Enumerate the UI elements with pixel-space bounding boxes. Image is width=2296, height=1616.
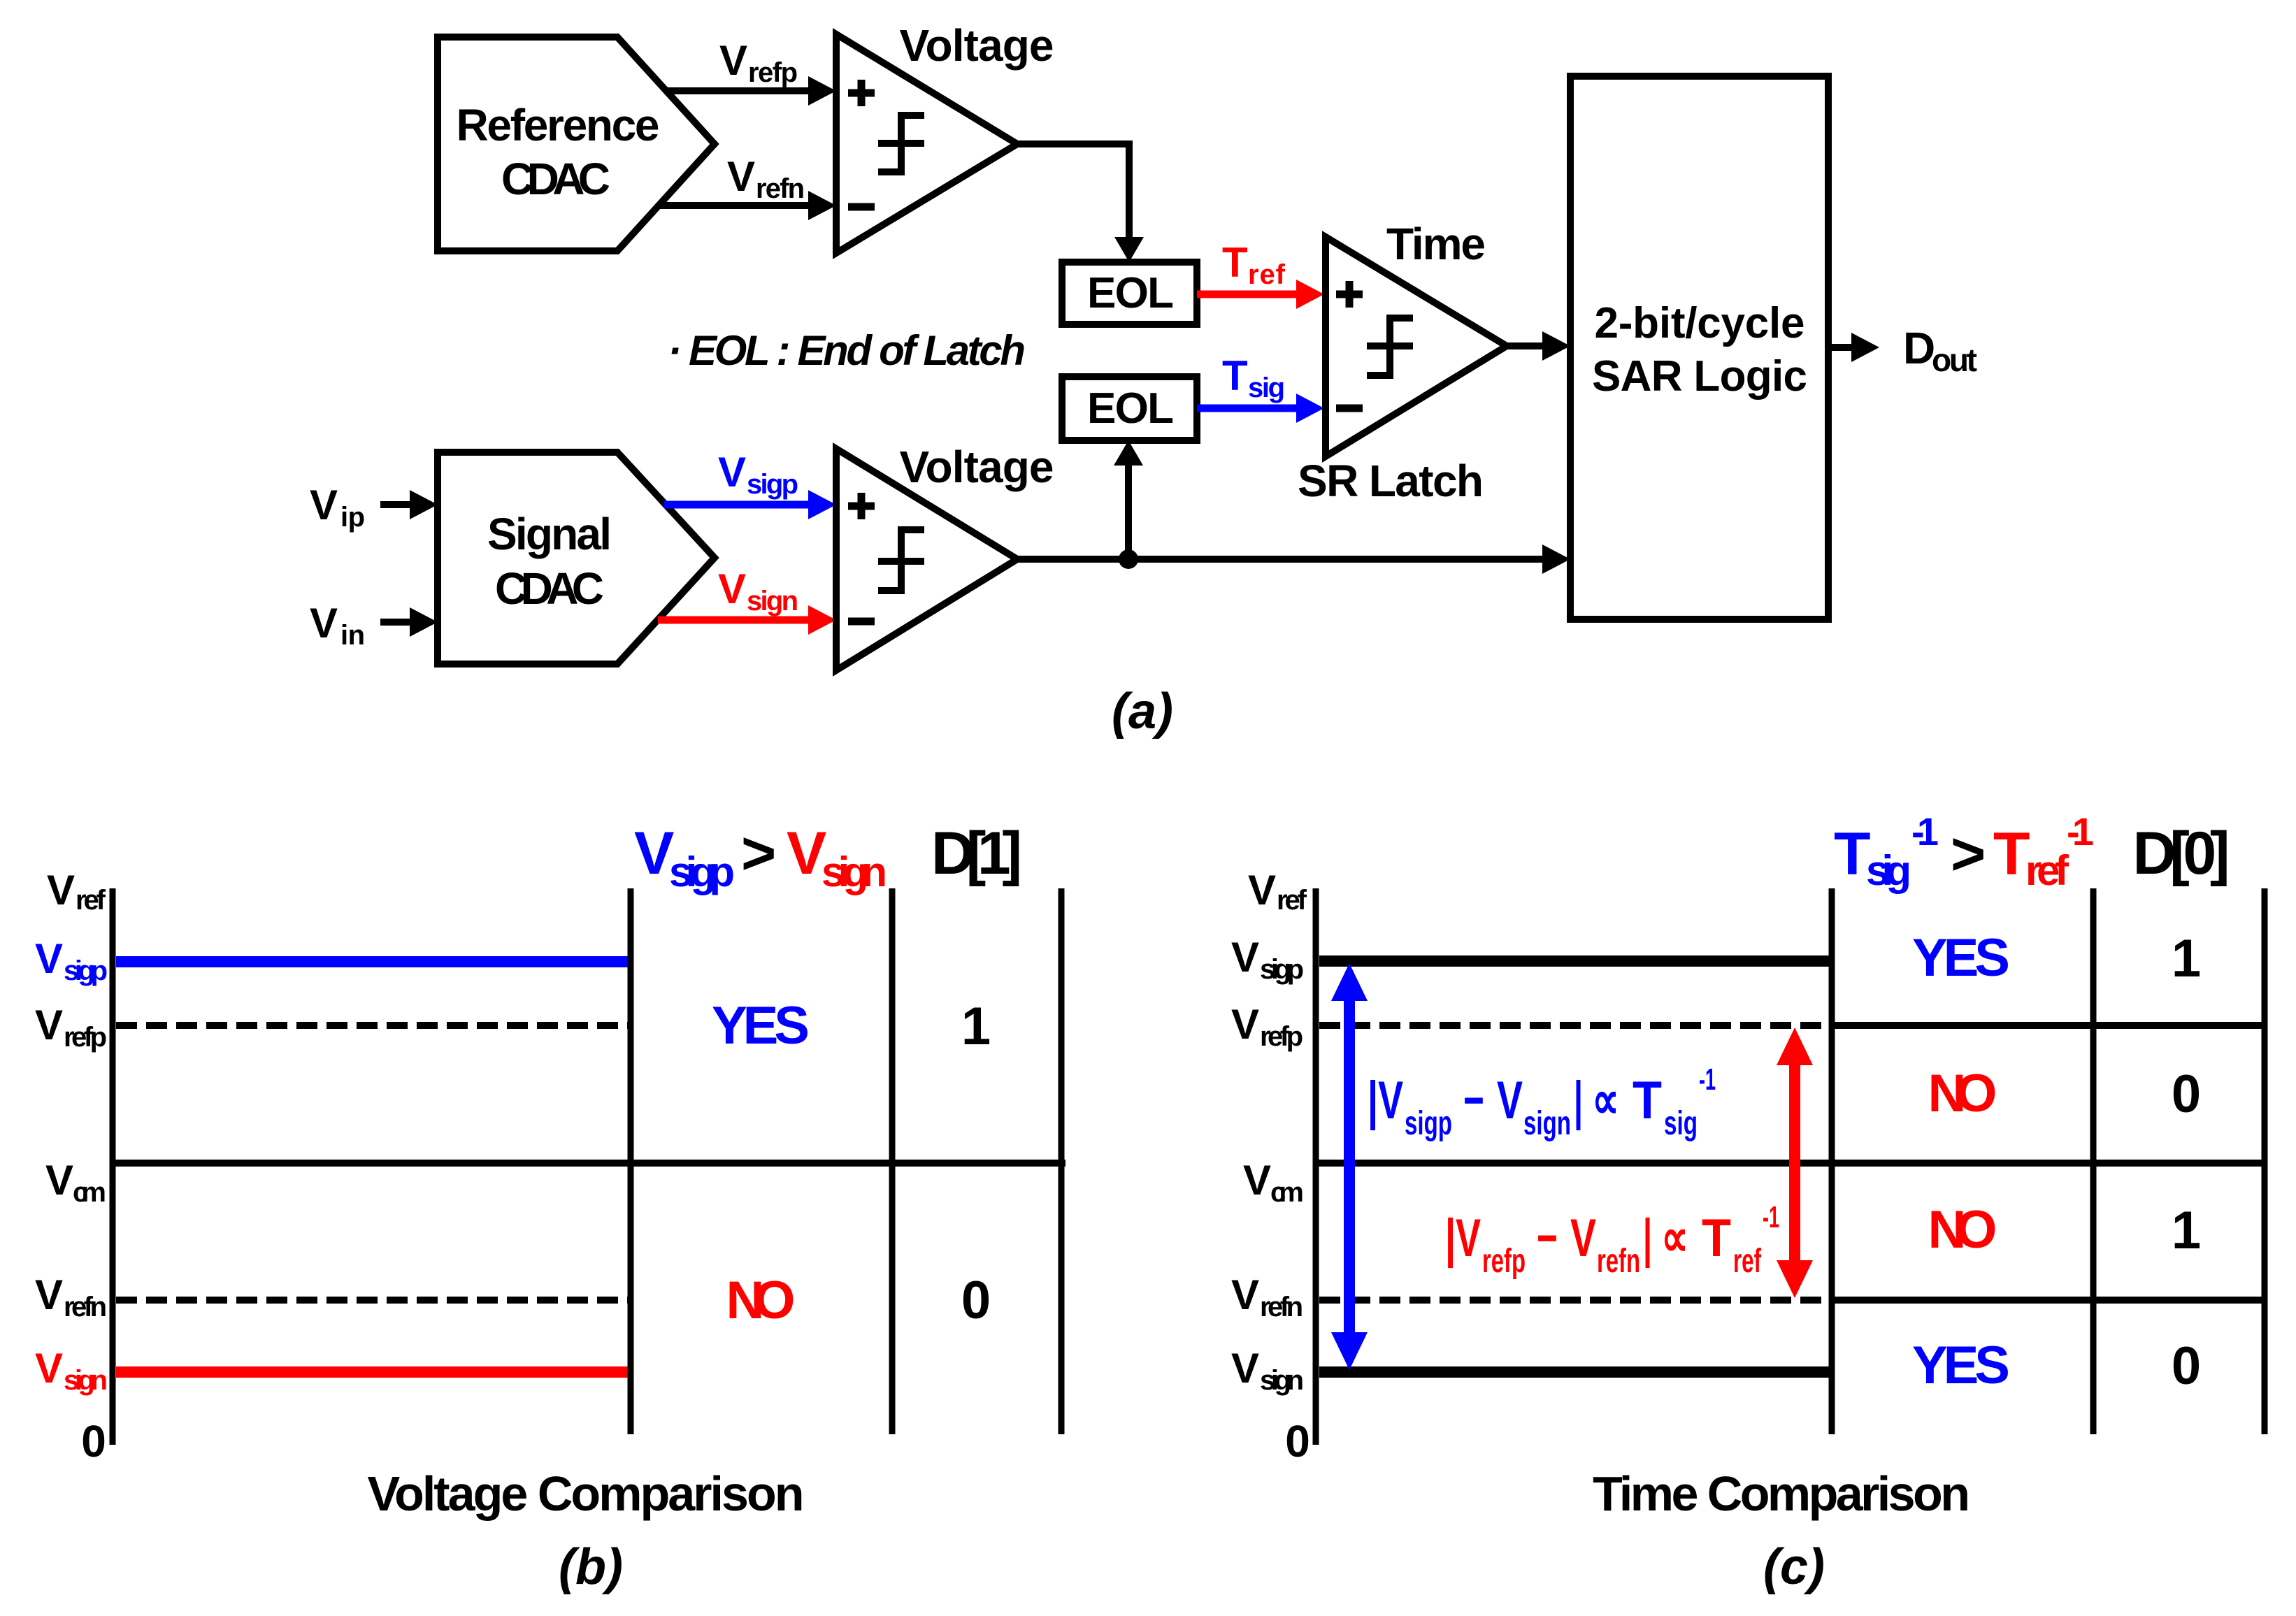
svg-text:V: V <box>310 600 338 647</box>
svg-text:T: T <box>1222 352 1248 399</box>
svg-text:ref: ref <box>1733 1243 1762 1280</box>
svg-text:sigp: sigp <box>1405 1105 1452 1142</box>
wire junction up into EOL2 <box>1114 440 1143 559</box>
svg-text:0: 0 <box>81 1416 106 1466</box>
wire Vrefn with arrow into comparator - <box>657 191 836 220</box>
svg-text:0: 0 <box>2172 1336 2201 1396</box>
svg-text:V: V <box>35 935 63 982</box>
svg-text:sigp: sigp <box>1260 954 1304 985</box>
svg-text:V: V <box>1248 867 1276 914</box>
label Tref <box>1222 239 1286 290</box>
svg-text:(a): (a) <box>1112 684 1173 740</box>
table divider 3 (b) <box>1059 888 1065 1434</box>
junction node dot <box>1119 549 1138 569</box>
row line at Vrefp level in table (c) <box>1832 1022 2267 1029</box>
svg-text:D[1]: D[1] <box>931 820 1022 887</box>
svg-text:ref: ref <box>1248 259 1286 290</box>
svg-text:−: − <box>1463 1071 1484 1130</box>
svg-text:YES: YES <box>1912 928 2010 988</box>
svg-text:· EOL : End of Latch: · EOL : End of Latch <box>668 327 1026 374</box>
svg-text:Time Comparison: Time Comparison <box>1593 1466 1970 1521</box>
svg-text:V: V <box>47 867 75 914</box>
svg-text:out: out <box>1932 342 1977 378</box>
svg-text:refn: refn <box>1597 1243 1640 1280</box>
svg-text:refn: refn <box>1260 1292 1303 1322</box>
svg-text:sigp: sigp <box>64 955 108 986</box>
table divider 3 (c) <box>2262 888 2268 1434</box>
svg-text:ref: ref <box>2025 847 2069 894</box>
table divider 1 (b) <box>628 888 634 1434</box>
wire Time comparator output into SAR logic <box>1503 331 1570 361</box>
svg-text:T: T <box>1834 821 1871 888</box>
svg-text:V: V <box>718 565 746 612</box>
label Vrefp <box>719 37 798 88</box>
Vcm line (b) <box>113 1160 1066 1167</box>
svg-text:ip: ip <box>340 502 365 533</box>
svg-text:V: V <box>727 153 755 200</box>
svg-text:-1: -1 <box>1911 809 1939 853</box>
svg-text:V: V <box>310 482 338 528</box>
svg-text:YES: YES <box>1912 1336 2010 1395</box>
svg-text:V: V <box>1231 1001 1259 1048</box>
svg-text:cm: cm <box>73 1177 106 1208</box>
svg-text:0: 0 <box>2172 1065 2201 1124</box>
svg-text:0: 0 <box>1285 1416 1310 1466</box>
svg-text:∝: ∝ <box>1661 1209 1688 1268</box>
svg-text:V: V <box>634 820 674 887</box>
input arrow Vin <box>380 607 438 637</box>
label Vsigp (c) <box>1231 934 1304 985</box>
header Tsig^-1 > Tref^-1 (c) <box>1834 809 2094 894</box>
svg-text:2-bit/cycle: 2-bit/cycle <box>1595 299 1805 347</box>
label Vsigp <box>718 449 798 500</box>
svg-text:V: V <box>35 1345 63 1392</box>
svg-text:∝: ∝ <box>1592 1071 1619 1130</box>
svg-text:NO: NO <box>726 1271 796 1330</box>
blue formula |Vsigp - Vsign| prop Tsig^-1 <box>1368 1062 1716 1142</box>
axis (b) <box>110 888 116 1445</box>
Vrefn dashed line (b) <box>116 1297 628 1304</box>
svg-text:sig: sig <box>1248 373 1285 403</box>
svg-text:refp: refp <box>1482 1243 1526 1280</box>
svg-text:V: V <box>1243 1157 1271 1204</box>
red double arrow |Vrefp-Vrefn| (c) <box>1777 1027 1813 1298</box>
svg-text:D: D <box>1903 323 1935 373</box>
svg-text:in: in <box>340 620 365 651</box>
svg-text:-1: -1 <box>1699 1062 1716 1097</box>
svg-text:−: − <box>1537 1209 1558 1268</box>
Vrefn dashed line (c) <box>1319 1297 1829 1304</box>
label Vrefn (b) <box>35 1271 107 1322</box>
svg-text:0: 0 <box>961 1271 991 1330</box>
label Vref (c) <box>1248 867 1307 916</box>
comparator U2 (Time comparator / SR Latch) <box>1326 237 1507 456</box>
svg-text:V: V <box>1231 1271 1259 1318</box>
label Vcm (c) <box>1243 1157 1304 1208</box>
label Vcm (b) <box>45 1157 106 1208</box>
label Vsign <box>718 565 798 616</box>
svg-text:1: 1 <box>2172 929 2201 988</box>
svg-text:refn: refn <box>756 173 805 204</box>
svg-text:D[0]: D[0] <box>2133 820 2230 887</box>
wire Vrefp with arrow into comparator + <box>665 76 836 106</box>
svg-text:CDAC: CDAC <box>495 563 604 614</box>
svg-text:V: V <box>718 449 746 496</box>
svg-text:T: T <box>1993 821 2030 888</box>
svg-text:V: V <box>1497 1071 1523 1130</box>
svg-text:|V: |V <box>1368 1071 1403 1131</box>
label Vin <box>310 600 365 651</box>
svg-text:sig: sig <box>1664 1105 1698 1142</box>
svg-text:V: V <box>1231 1345 1259 1392</box>
input arrow Vip <box>380 490 438 519</box>
Signal CDAC block <box>438 452 715 664</box>
table divider 2 (c) <box>2090 888 2097 1434</box>
svg-text:>: > <box>1951 821 1986 888</box>
label Vsign (c) <box>1231 1345 1304 1396</box>
wire comparator output to EOL1 <box>1014 144 1144 262</box>
svg-text:YES: YES <box>712 996 810 1055</box>
label Vref (b) <box>47 867 106 916</box>
label Vrefn (c) <box>1231 1271 1303 1322</box>
label Vsign (b) <box>35 1345 108 1396</box>
comparator U3 (bottom Voltage comparator) <box>836 449 1017 670</box>
svg-text:V: V <box>1570 1209 1596 1268</box>
svg-text:|: | <box>1574 1071 1583 1131</box>
label Vrefp (c) <box>1231 1001 1303 1052</box>
label Vsigp (b) <box>35 935 108 986</box>
wire Vsign red arrow into bottom comparator - <box>658 605 836 635</box>
svg-text:(c): (c) <box>1763 1539 1825 1595</box>
svg-text:>: > <box>741 820 776 887</box>
EOL box 1 <box>1062 262 1197 324</box>
blue double arrow |Vsigp-Vsign| (c) <box>1331 963 1368 1370</box>
svg-text:SAR Logic: SAR Logic <box>1592 352 1807 401</box>
svg-text:V: V <box>35 1002 63 1048</box>
wire Tref red arrow into Time comparator + <box>1197 280 1324 309</box>
svg-text:cm: cm <box>1270 1177 1304 1208</box>
svg-text:V: V <box>719 37 747 84</box>
svg-text:sign: sign <box>747 586 798 616</box>
comparator U1 (top Voltage comparator) <box>836 34 1017 253</box>
2-bit/cycle SAR Logic block <box>1570 76 1828 619</box>
red formula |Vrefp - Vrefn| prop Tref^-1 <box>1445 1200 1779 1280</box>
Vsign level line (b, red) <box>116 1366 631 1378</box>
svg-text:CDAC: CDAC <box>501 154 610 204</box>
svg-text:V: V <box>35 1271 63 1318</box>
Vrefp dashed line (b) <box>116 1022 628 1029</box>
svg-text:-1: -1 <box>2067 809 2094 853</box>
svg-text:sign: sign <box>1523 1105 1571 1142</box>
label Vrefn <box>727 153 805 204</box>
wire bottom comparator output to SAR logic <box>1014 556 1547 563</box>
label Vip <box>310 482 365 533</box>
svg-text:refp: refp <box>748 57 798 88</box>
label Vrefp (b) <box>35 1002 107 1053</box>
svg-text:V: V <box>45 1157 73 1204</box>
svg-text:refp: refp <box>1260 1021 1303 1052</box>
svg-text:Signal: Signal <box>487 509 612 559</box>
svg-text:refp: refp <box>64 1022 107 1053</box>
arrowhead into SAR logic (bottom wire) <box>1542 544 1570 574</box>
svg-text:ref: ref <box>1277 885 1307 916</box>
Vsigp level line (b, blue) <box>116 956 631 967</box>
svg-text:1: 1 <box>961 997 991 1056</box>
svg-text:sig: sig <box>1866 847 1911 894</box>
svg-text:SR Latch: SR Latch <box>1298 456 1484 506</box>
svg-text:Voltage: Voltage <box>900 20 1054 71</box>
axis (c) <box>1313 888 1319 1445</box>
svg-text:sign: sign <box>1260 1365 1304 1396</box>
Vsign level line (c, black thick) <box>1319 1366 1832 1378</box>
svg-text:Voltage Comparison: Voltage Comparison <box>368 1466 805 1521</box>
label Tsig <box>1222 352 1285 403</box>
EOL box 2 <box>1062 377 1197 440</box>
Vrefp dashed line (c) <box>1319 1022 1829 1029</box>
svg-text:EOL: EOL <box>1087 269 1174 317</box>
svg-text:NO: NO <box>1928 1200 1997 1260</box>
svg-text:sigp: sigp <box>747 469 798 500</box>
svg-text:Reference: Reference <box>457 100 660 150</box>
svg-text:V: V <box>787 820 826 887</box>
output arrow Dout <box>1828 333 1879 362</box>
svg-text:sign: sign <box>821 849 887 895</box>
Reference CDAC block <box>438 37 715 251</box>
svg-text:EOL: EOL <box>1087 384 1174 433</box>
Vsigp level line (c, black thick) <box>1319 955 1832 967</box>
svg-text:|: | <box>1643 1209 1652 1269</box>
svg-text:T: T <box>1222 239 1248 286</box>
wire Tsig blue arrow into Time comparator - <box>1197 394 1324 423</box>
svg-text:(b): (b) <box>559 1539 623 1595</box>
svg-text:Voltage: Voltage <box>900 442 1054 492</box>
svg-text:|V: |V <box>1445 1209 1481 1269</box>
svg-text:refn: refn <box>64 1292 107 1322</box>
header Vsigp > Vsign (b) <box>634 820 887 895</box>
svg-text:1: 1 <box>2172 1201 2201 1260</box>
svg-text:NO: NO <box>1928 1064 1997 1123</box>
svg-text:sigp: sigp <box>669 849 735 895</box>
svg-text:sign: sign <box>64 1365 108 1396</box>
svg-text:V: V <box>1231 934 1259 981</box>
label Dout <box>1903 323 1977 378</box>
wire Vsigp blue arrow into bottom comparator + <box>664 490 836 519</box>
table divider 2 (b) <box>889 888 896 1434</box>
svg-text:ref: ref <box>76 885 106 916</box>
table divider 1 (c) <box>1829 888 1835 1434</box>
svg-text:T: T <box>1702 1209 1731 1268</box>
svg-text:-1: -1 <box>1763 1200 1779 1234</box>
svg-text:T: T <box>1633 1071 1662 1130</box>
svg-text:Time: Time <box>1386 219 1486 269</box>
Vcm line (c) <box>1316 1160 2267 1167</box>
row line at Vrefn level in table (c) <box>1832 1297 2267 1304</box>
